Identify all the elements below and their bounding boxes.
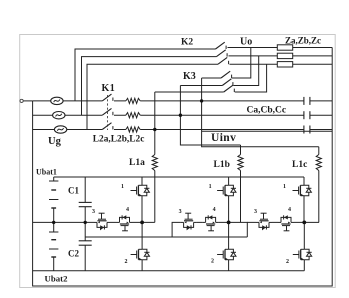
- svg-text:L1a: L1a: [129, 158, 145, 168]
- svg-text:1: 1: [283, 184, 286, 190]
- svg-text:3: 3: [179, 209, 182, 215]
- svg-text:2: 2: [286, 259, 289, 265]
- svg-text:Ca,Cb,Cc: Ca,Cb,Cc: [247, 106, 287, 116]
- svg-text:L2a,L2b,L2c: L2a,L2b,L2c: [93, 135, 145, 145]
- svg-text:1: 1: [209, 184, 212, 190]
- svg-text:C2: C2: [68, 249, 79, 259]
- svg-text:Uo: Uo: [240, 37, 252, 48]
- svg-text:3: 3: [92, 209, 95, 215]
- svg-text:Ubat1: Ubat1: [36, 168, 57, 177]
- svg-text:1: 1: [121, 184, 124, 190]
- svg-text:Ug: Ug: [48, 136, 62, 147]
- svg-text:L1c: L1c: [292, 160, 307, 170]
- svg-text:2: 2: [211, 259, 214, 265]
- svg-text:Uinv: Uinv: [211, 132, 236, 144]
- svg-text:2: 2: [125, 259, 128, 265]
- svg-text:K3: K3: [183, 71, 196, 82]
- svg-text:Za,Zb,Zc: Za,Zb,Zc: [285, 36, 321, 46]
- svg-text:K2: K2: [181, 38, 193, 48]
- svg-text:Ubat2: Ubat2: [45, 274, 69, 284]
- svg-text:K1: K1: [102, 83, 116, 94]
- svg-text:4: 4: [126, 207, 129, 213]
- svg-text:C1: C1: [68, 186, 79, 196]
- svg-text:4: 4: [213, 207, 216, 213]
- svg-text:4: 4: [288, 207, 291, 213]
- svg-text:L1b: L1b: [214, 160, 230, 170]
- svg-text:3: 3: [254, 209, 257, 215]
